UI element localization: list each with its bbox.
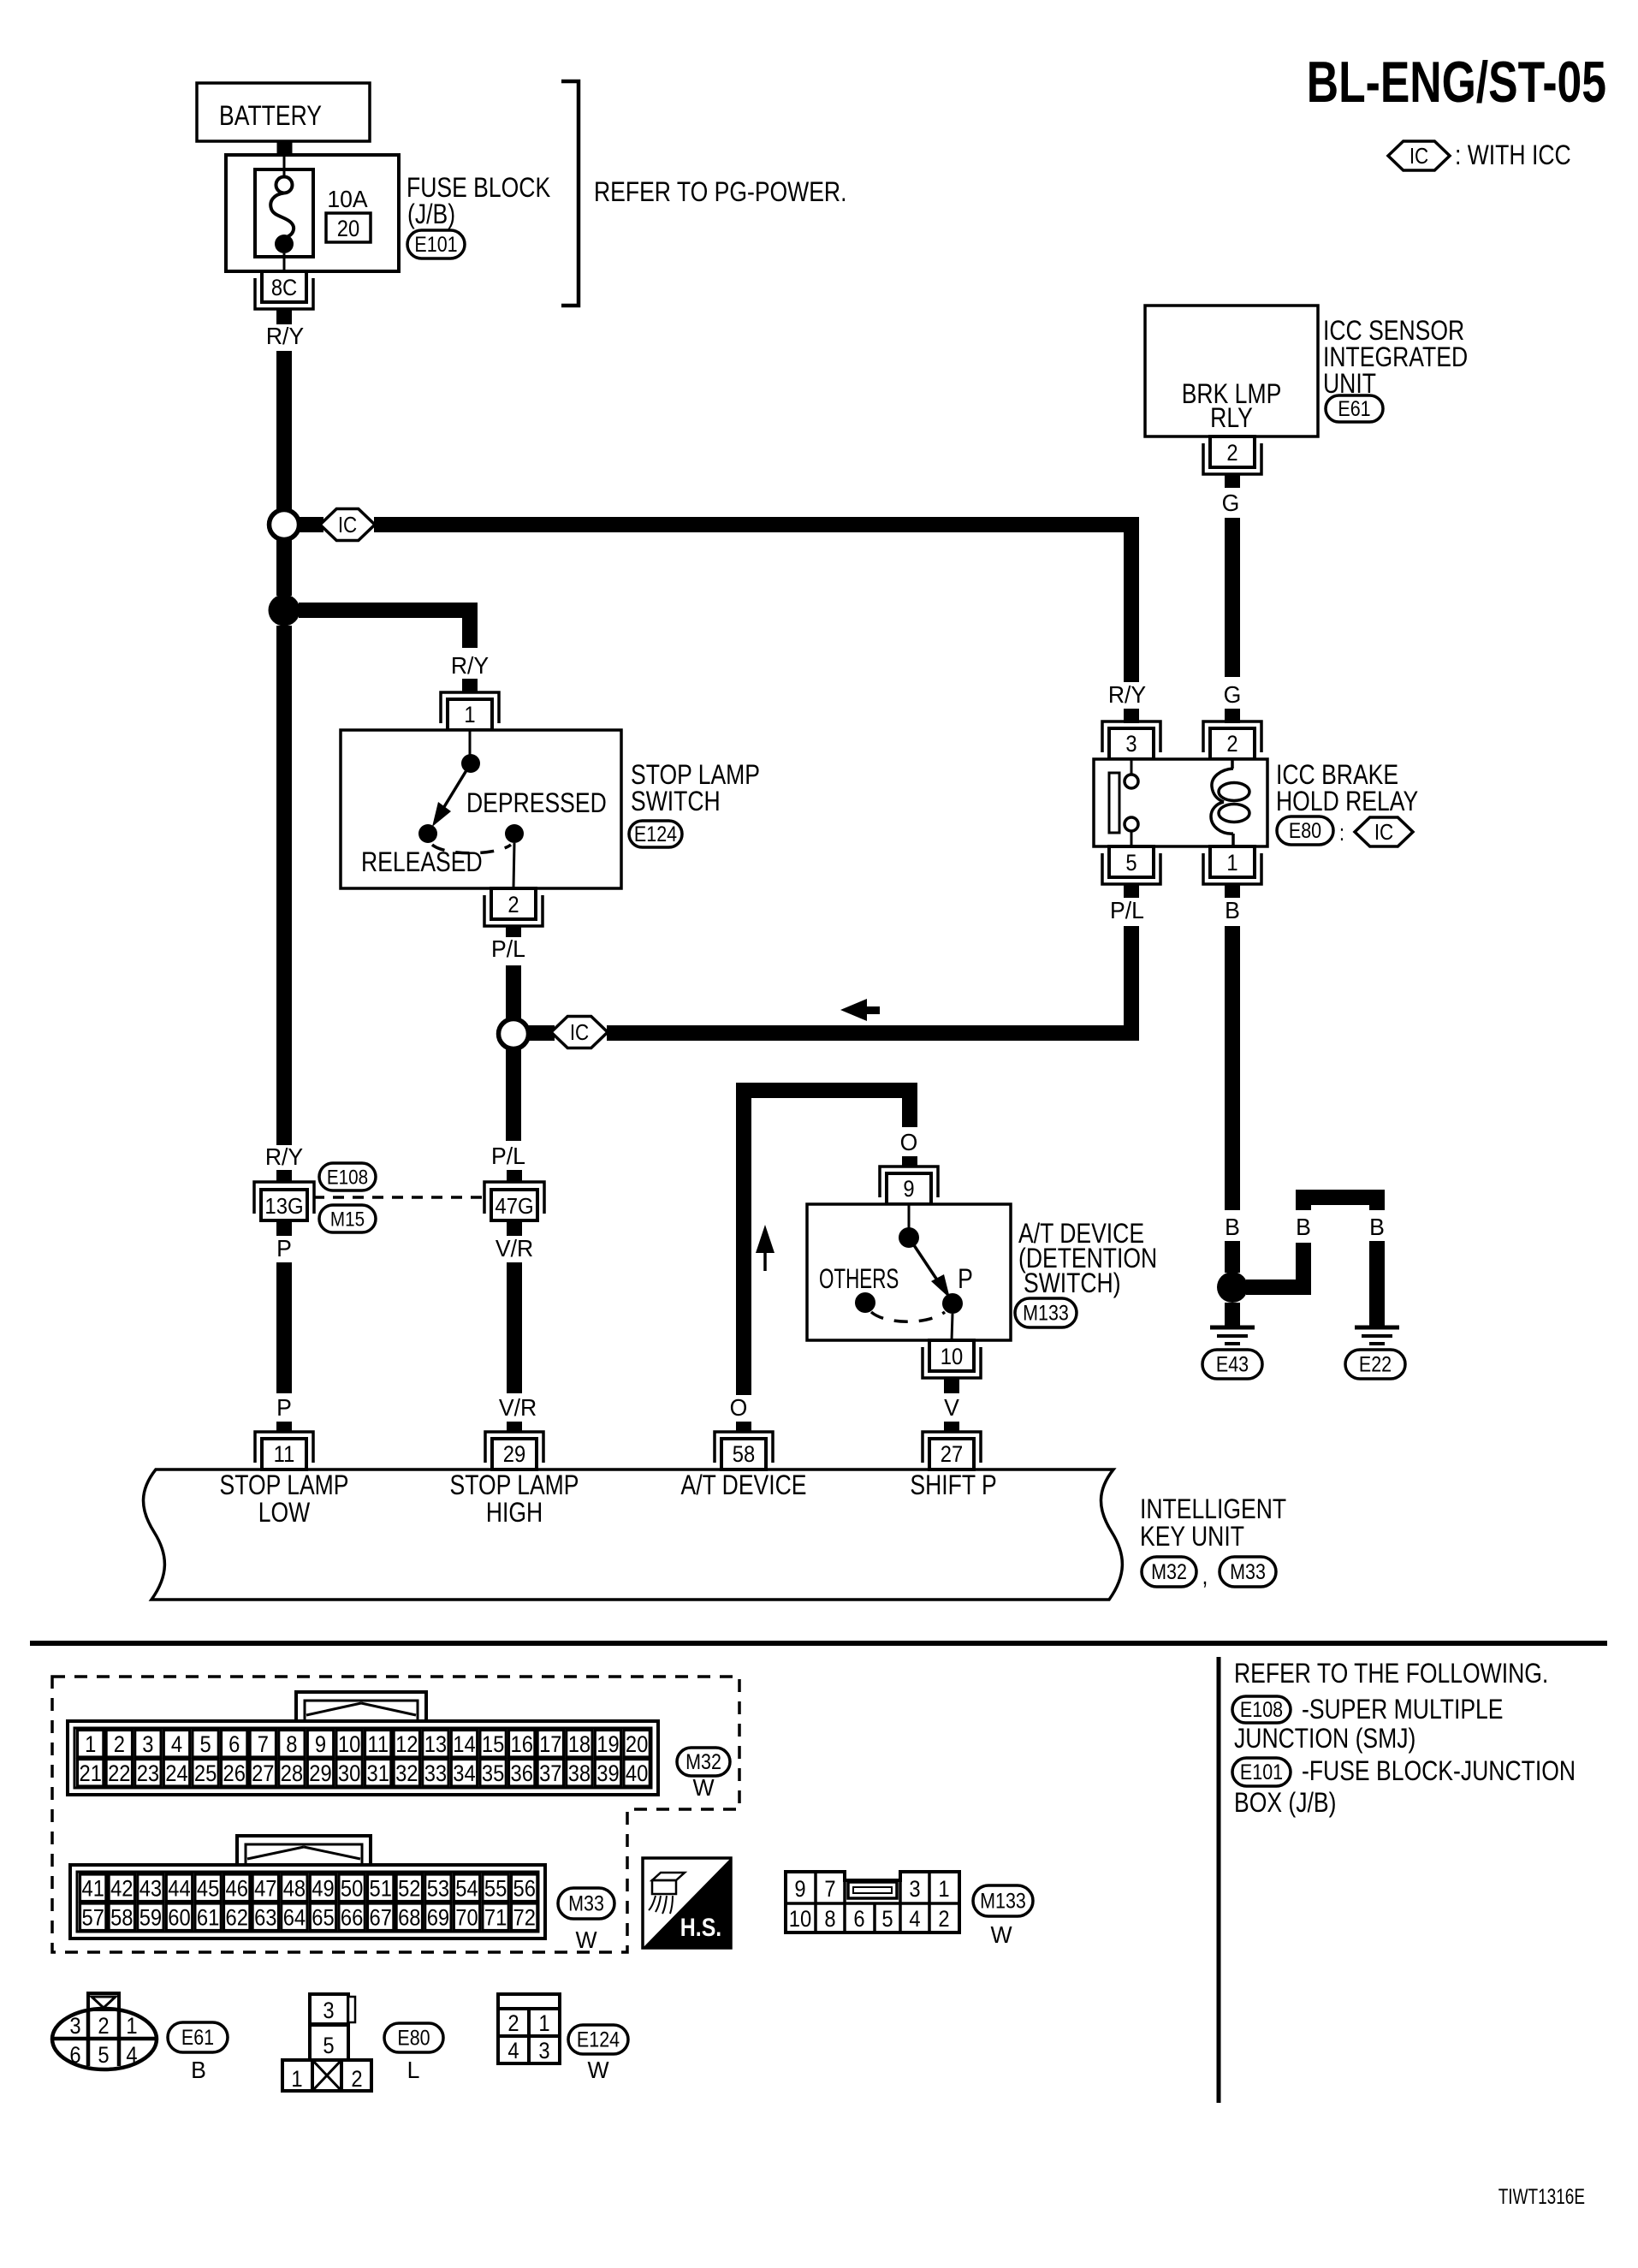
label ICC SENSOR INTEGRATED UNIT — [1323, 316, 1468, 400]
wire stub below — [1225, 474, 1240, 488]
svg-text:BATTERY: BATTERY — [219, 101, 322, 132]
connector E80 oval and IC hexagon — [1277, 816, 1413, 846]
label INTELLIGENT KEY UNIT — [1140, 1494, 1286, 1553]
svg-text:47: 47 — [254, 1876, 276, 1902]
wire R/Y main vertical — [276, 351, 292, 510]
svg-text:W: W — [587, 2056, 608, 2083]
svg-text:P/L: P/L — [1110, 896, 1144, 923]
A/T device box — [807, 1204, 1011, 1340]
svg-text:B: B — [1296, 1213, 1311, 1240]
svg-text:HOLD RELAY: HOLD RELAY — [1276, 787, 1418, 817]
H.S. view symbol — [643, 1858, 731, 1948]
label P/L — [491, 935, 525, 962]
connector pin 11 — [255, 1432, 313, 1469]
svg-text:49: 49 — [312, 1876, 334, 1902]
svg-text:STOP LAMP: STOP LAMP — [450, 1470, 579, 1501]
svg-text:IC: IC — [1410, 144, 1428, 169]
wire stub above pin 1 — [462, 679, 478, 693]
wire G down — [1225, 518, 1240, 677]
wire battery to fuse block — [277, 141, 293, 156]
note FUSE BLOCK JUNCTION BOX — [1234, 1756, 1576, 1819]
svg-text:E22: E22 — [1359, 1352, 1392, 1376]
legend IC hexagon : WITH ICC — [1388, 140, 1571, 171]
svg-text:E108: E108 — [1240, 1697, 1283, 1721]
svg-text:10: 10 — [789, 1907, 811, 1933]
connector M33 oval label — [558, 1888, 614, 1953]
connector M133 oval label — [973, 1885, 1033, 1948]
wire stub below 47G — [507, 1220, 522, 1236]
connector pin 1 stop lamp switch — [441, 692, 499, 730]
svg-text:16: 16 — [510, 1732, 532, 1758]
svg-text:V/R: V/R — [496, 1234, 533, 1262]
svg-text:G: G — [1224, 680, 1242, 708]
svg-text:SHIFT P: SHIFT P — [910, 1470, 996, 1501]
svg-text:61: 61 — [197, 1905, 219, 1931]
B loop to second ground — [1246, 1243, 1311, 1295]
svg-text:54: 54 — [455, 1876, 478, 1902]
svg-text:L: L — [407, 2056, 420, 2083]
svg-text:19: 19 — [596, 1732, 619, 1758]
svg-text:53: 53 — [427, 1876, 449, 1902]
connector 8C — [255, 271, 313, 309]
wire below P/L node — [506, 1048, 521, 1141]
svg-text:59: 59 — [139, 1905, 162, 1931]
label B above junction — [1225, 1213, 1240, 1240]
svg-text:BOX (J/B): BOX (J/B) — [1234, 1788, 1336, 1819]
svg-text:KEY UNIT: KEY UNIT — [1140, 1522, 1244, 1553]
connector M133 oval — [1015, 1298, 1077, 1327]
label SHIFT P — [910, 1470, 996, 1501]
connector E124 oval — [629, 821, 682, 847]
label O left branch — [730, 1393, 748, 1421]
svg-text:M32: M32 — [685, 1749, 721, 1773]
svg-text:72: 72 — [513, 1905, 535, 1931]
junction dot B — [1217, 1272, 1248, 1303]
svg-text:28: 28 — [281, 1761, 303, 1787]
ICC brake hold relay box — [1094, 759, 1267, 846]
svg-text:1: 1 — [538, 2011, 549, 2037]
wire stub above pin 27 — [944, 1422, 959, 1433]
connector pin 29 — [485, 1432, 543, 1469]
svg-text:23: 23 — [137, 1761, 159, 1787]
wire P to key unit — [276, 1262, 292, 1393]
connector E124 oval label — [568, 2025, 628, 2083]
svg-text:IC: IC — [1374, 820, 1393, 845]
wire stub above 13G — [276, 1170, 292, 1182]
svg-text:64: 64 — [283, 1905, 306, 1931]
svg-text:2: 2 — [938, 1907, 949, 1933]
svg-text:E101: E101 — [414, 232, 457, 256]
svg-text:5: 5 — [199, 1732, 211, 1758]
svg-text:13G: 13G — [264, 1194, 303, 1219]
svg-text:2: 2 — [507, 2011, 519, 2037]
ground symbol E43 — [1210, 1327, 1255, 1344]
svg-text:6: 6 — [69, 2043, 80, 2069]
svg-text:40: 40 — [626, 1761, 648, 1787]
wire stub to ground E43 — [1225, 1303, 1240, 1326]
svg-text:15: 15 — [482, 1732, 504, 1758]
svg-text:62: 62 — [225, 1905, 247, 1931]
svg-text:52: 52 — [398, 1876, 420, 1902]
svg-text:3: 3 — [538, 2039, 549, 2064]
svg-text:65: 65 — [312, 1905, 334, 1931]
svg-text:10: 10 — [941, 1345, 963, 1370]
svg-text:E101: E101 — [1240, 1760, 1283, 1784]
label O right branch — [900, 1128, 918, 1155]
svg-text:P/L: P/L — [491, 1142, 525, 1169]
svg-text:68: 68 — [398, 1905, 420, 1931]
svg-text::: : — [1339, 821, 1344, 846]
svg-text:57: 57 — [81, 1905, 104, 1931]
svg-text:5: 5 — [881, 1907, 893, 1933]
ground E22 oval — [1345, 1350, 1405, 1379]
wire stub below 13G — [276, 1220, 292, 1236]
svg-text:58: 58 — [110, 1905, 133, 1931]
label P/L above 47G — [491, 1142, 525, 1169]
svg-text:H.S.: H.S. — [680, 1913, 721, 1942]
svg-text:67: 67 — [369, 1905, 391, 1931]
svg-text:INTELLIGENT: INTELLIGENT — [1140, 1494, 1286, 1525]
svg-text:1: 1 — [85, 1732, 96, 1758]
svg-text:1: 1 — [126, 2014, 137, 2039]
node open circle IC branch — [270, 510, 300, 540]
svg-text:2: 2 — [98, 2014, 109, 2039]
label B loop right — [1369, 1213, 1385, 1240]
svg-text:31: 31 — [366, 1761, 389, 1787]
A/T detention switch contacts — [855, 1204, 963, 1340]
svg-text:E61: E61 — [181, 2025, 214, 2049]
connector pin 2 relay — [1203, 721, 1261, 759]
svg-text:9: 9 — [315, 1732, 326, 1758]
svg-text:1: 1 — [1226, 851, 1237, 876]
connector M33 pinout — [70, 1836, 545, 1938]
svg-text:10A: 10A — [327, 185, 368, 212]
svg-text:B: B — [1225, 1213, 1240, 1240]
svg-text:M33: M33 — [568, 1891, 604, 1915]
svg-text:2: 2 — [1226, 732, 1237, 757]
svg-text:1: 1 — [938, 1877, 949, 1903]
svg-text:8: 8 — [824, 1907, 835, 1933]
svg-text:42: 42 — [110, 1876, 133, 1902]
label STOP LAMP HIGH — [450, 1470, 579, 1529]
wire main down from dot — [276, 626, 292, 1145]
svg-text:(J/B): (J/B) — [407, 199, 455, 230]
label V — [944, 1393, 960, 1421]
connector E101 oval note — [1232, 1758, 1291, 1786]
label B below pin 1 — [1225, 896, 1240, 923]
label DEPRESSED — [466, 788, 607, 819]
arrow left on P/L wire — [840, 999, 880, 1021]
label G — [1222, 489, 1240, 516]
svg-text:2: 2 — [351, 2067, 362, 2093]
svg-text:25: 25 — [194, 1761, 217, 1787]
svg-text:60: 60 — [168, 1905, 190, 1931]
svg-text:7: 7 — [824, 1877, 835, 1903]
connector E108 oval — [319, 1163, 376, 1190]
label R/Y — [266, 322, 304, 349]
label P below 13G — [276, 1234, 292, 1262]
svg-text:8: 8 — [286, 1732, 297, 1758]
wire stub below pin 1 — [1225, 884, 1240, 898]
svg-text:SWITCH: SWITCH — [631, 787, 721, 817]
connector pin 27 — [923, 1432, 981, 1469]
connector E61 oval — [1326, 395, 1383, 422]
connector M133 pinout — [786, 1872, 959, 1933]
svg-text:E124: E124 — [634, 822, 677, 846]
wire stub above pin 58 — [736, 1422, 751, 1433]
svg-text:OTHERS: OTHERS — [819, 1263, 899, 1294]
svg-text:7: 7 — [258, 1732, 269, 1758]
svg-text:66: 66 — [341, 1905, 363, 1931]
drawing code TIWT1316E — [1499, 2184, 1585, 2208]
label R/Y branch — [451, 651, 489, 679]
fuse block box E101 — [226, 155, 399, 271]
relay armature bar — [1109, 773, 1119, 833]
svg-text:V: V — [944, 1393, 960, 1421]
dashed SMJ link line — [313, 1196, 484, 1199]
svg-text:E80: E80 — [397, 2026, 430, 2050]
svg-text:6: 6 — [853, 1907, 864, 1933]
svg-text:E80: E80 — [1289, 818, 1321, 842]
svg-text:DEPRESSED: DEPRESSED — [466, 788, 607, 819]
svg-text:W: W — [990, 1921, 1012, 1948]
svg-text:RELEASED: RELEASED — [361, 847, 483, 878]
label V/R above pin 29 — [499, 1393, 537, 1421]
wire stub above pin 11 — [276, 1422, 292, 1433]
svg-text:35: 35 — [482, 1761, 504, 1787]
wire stub above pin 29 — [507, 1422, 522, 1433]
connector pin 5 relay — [1102, 846, 1160, 884]
svg-text:32: 32 — [395, 1761, 418, 1787]
connector M32 pinout — [68, 1692, 658, 1795]
wire node to hexagon — [528, 1025, 555, 1041]
label B loop left — [1296, 1213, 1311, 1240]
connector E80 oval label — [384, 2023, 443, 2083]
svg-text:69: 69 — [427, 1905, 449, 1931]
svg-text:22: 22 — [108, 1761, 130, 1787]
bracket refer to pg-power — [561, 81, 846, 306]
connector E80 pinout — [282, 1994, 371, 2092]
svg-text:43: 43 — [139, 1876, 162, 1902]
connector M33 oval — [1220, 1557, 1276, 1587]
wire stub above pin 9 — [902, 1156, 917, 1167]
svg-text:10: 10 — [338, 1732, 360, 1758]
wire to ground E22 — [1369, 1241, 1385, 1326]
switch contacts and arm — [418, 730, 524, 888]
wire A/T branch top bar — [736, 1083, 917, 1395]
svg-text:-SUPER MULTIPLE: -SUPER MULTIPLE — [1302, 1695, 1504, 1725]
label FUSE BLOCK (J/B) — [407, 173, 551, 230]
connector E101 oval — [407, 230, 465, 258]
wire branch to stop lamp switch — [299, 603, 478, 648]
svg-text:56: 56 — [513, 1876, 535, 1902]
up arrow beside A/T wire — [756, 1225, 774, 1271]
svg-text:20: 20 — [626, 1732, 648, 1758]
svg-text:9: 9 — [794, 1877, 805, 1903]
wire IC horizontal to relay — [374, 517, 1139, 532]
label OTHERS — [819, 1263, 899, 1294]
svg-text:51: 51 — [369, 1876, 391, 1902]
label V/R below 47G — [496, 1234, 533, 1262]
label R/Y relay feed — [1108, 680, 1146, 708]
svg-text:-FUSE BLOCK-JUNCTION: -FUSE BLOCK-JUNCTION — [1302, 1756, 1576, 1787]
connector E108 oval note — [1232, 1696, 1291, 1723]
svg-text:2: 2 — [1226, 441, 1237, 466]
svg-text:1: 1 — [291, 2067, 302, 2093]
svg-text:2: 2 — [114, 1732, 125, 1758]
svg-text:26: 26 — [223, 1761, 245, 1787]
svg-text:70: 70 — [455, 1905, 478, 1931]
svg-text:SWITCH): SWITCH) — [1024, 1268, 1121, 1299]
svg-text:M32: M32 — [1151, 1559, 1187, 1583]
connector M32 oval — [1142, 1557, 1196, 1587]
label STOP LAMP SWITCH — [631, 760, 760, 817]
svg-text:W: W — [575, 1926, 596, 1953]
connector M32 oval label — [677, 1748, 730, 1801]
svg-text:4: 4 — [909, 1907, 920, 1933]
svg-text:34: 34 — [453, 1761, 475, 1787]
svg-text:E124: E124 — [577, 2028, 620, 2051]
stop lamp switch box — [341, 730, 621, 888]
svg-text:4: 4 — [171, 1732, 182, 1758]
fuse 10A 20 — [270, 156, 371, 274]
connector pin 1 relay — [1203, 846, 1261, 884]
connector pin 3 relay — [1102, 721, 1160, 759]
svg-text:9: 9 — [903, 1177, 914, 1202]
wire stub below pin 10 — [944, 1378, 959, 1393]
svg-text:33: 33 — [424, 1761, 447, 1787]
svg-text:O: O — [900, 1128, 918, 1155]
ground E43 oval — [1202, 1350, 1262, 1379]
svg-text:O: O — [730, 1393, 748, 1421]
svg-text:47G: 47G — [495, 1194, 533, 1219]
svg-text:M15: M15 — [330, 1208, 365, 1231]
svg-text:B: B — [1225, 896, 1240, 923]
svg-text:R/Y: R/Y — [1108, 680, 1146, 708]
wire down to relay pin 3 — [1124, 517, 1139, 682]
svg-text:V/R: V/R — [499, 1393, 537, 1421]
relay contacts — [1125, 759, 1138, 846]
svg-text:REFER TO PG-POWER.: REFER TO PG-POWER. — [594, 177, 846, 208]
svg-text:4: 4 — [507, 2039, 519, 2064]
svg-text:B: B — [1369, 1213, 1385, 1240]
connector pin 2 stop lamp switch — [484, 888, 543, 926]
relay coil — [1211, 759, 1249, 846]
label ICC BRAKE HOLD RELAY — [1276, 760, 1418, 817]
svg-text:41: 41 — [81, 1876, 104, 1902]
junction dot branch to stop lamp switch — [269, 595, 300, 626]
svg-text:M133: M133 — [980, 1889, 1026, 1913]
label A/T DEVICE pin — [680, 1470, 806, 1501]
wire stub below 8C — [276, 309, 292, 324]
svg-text:: WITH ICC: : WITH ICC — [1455, 140, 1571, 171]
svg-text:46: 46 — [225, 1876, 247, 1902]
ground symbol E22 — [1355, 1327, 1399, 1344]
label P above pin 11 — [276, 1393, 292, 1421]
vertical divider line — [1217, 1657, 1221, 2103]
intelligent key unit strip — [143, 1469, 1122, 1600]
svg-text:13: 13 — [424, 1732, 447, 1758]
svg-text:30: 30 — [338, 1761, 360, 1787]
svg-text:11: 11 — [367, 1732, 389, 1758]
svg-text:RLY: RLY — [1210, 403, 1253, 434]
wire stub to junction — [1225, 1241, 1240, 1273]
svg-text:3: 3 — [69, 2014, 80, 2039]
svg-text:18: 18 — [568, 1732, 591, 1758]
svg-text:63: 63 — [254, 1905, 276, 1931]
label P contact — [958, 1264, 973, 1295]
svg-text:14: 14 — [453, 1732, 475, 1758]
svg-text:27: 27 — [941, 1442, 963, 1468]
connector E61 oval label — [168, 2022, 228, 2083]
svg-text:17: 17 — [539, 1732, 561, 1758]
svg-text:A/T DEVICE: A/T DEVICE — [680, 1470, 806, 1501]
svg-text:E61: E61 — [1338, 396, 1370, 420]
svg-text:55: 55 — [484, 1876, 507, 1902]
label A/T DEVICE (DETENTION SWITCH) — [1018, 1219, 1157, 1299]
svg-text:8C: 8C — [271, 276, 297, 301]
svg-text:IC: IC — [338, 513, 357, 537]
svg-text:IC: IC — [570, 1020, 589, 1045]
note REFER TO THE FOLLOWING — [1234, 1659, 1548, 1689]
svg-text:71: 71 — [484, 1905, 507, 1931]
connector E61 pinout — [52, 1993, 157, 2069]
svg-text:58: 58 — [733, 1442, 755, 1468]
wire stub below relay pin 5 — [1124, 884, 1139, 898]
BRK LMP RLY box (ICC sensor integrated unit) — [1145, 306, 1318, 436]
svg-text:G: G — [1222, 489, 1240, 516]
connector 2 below BRK LMP RLY — [1203, 436, 1261, 474]
svg-text:4: 4 — [126, 2043, 137, 2069]
svg-text:HIGH: HIGH — [486, 1498, 543, 1529]
svg-text:2: 2 — [507, 893, 519, 918]
wire segment node to hexagon — [299, 517, 323, 532]
svg-text:3: 3 — [142, 1732, 153, 1758]
svg-text:5: 5 — [323, 2033, 334, 2059]
svg-text:27: 27 — [252, 1761, 274, 1787]
svg-text:45: 45 — [197, 1876, 219, 1902]
svg-text:E43: E43 — [1216, 1352, 1249, 1376]
svg-text:LOW: LOW — [258, 1498, 311, 1529]
svg-text:REFER TO THE FOLLOWING.: REFER TO THE FOLLOWING. — [1234, 1659, 1548, 1689]
svg-text:BL-ENG/ST-05: BL-ENG/ST-05 — [1307, 49, 1606, 115]
svg-text:11: 11 — [274, 1442, 295, 1468]
svg-text:R/Y: R/Y — [451, 651, 489, 679]
svg-text:3: 3 — [323, 1998, 334, 2024]
label P/L relay side — [1110, 896, 1144, 923]
svg-text:W: W — [692, 1773, 714, 1801]
svg-text:M133: M133 — [1023, 1301, 1069, 1325]
wire stub above relay pin 2 — [1225, 709, 1240, 723]
svg-text:1: 1 — [464, 703, 475, 728]
svg-text:5: 5 — [1125, 851, 1137, 876]
svg-text:E108: E108 — [327, 1166, 368, 1189]
svg-text:3: 3 — [1125, 732, 1137, 757]
svg-text:JUNCTION (SMJ): JUNCTION (SMJ) — [1234, 1724, 1415, 1754]
svg-text:3: 3 — [909, 1877, 920, 1903]
node open circle P/L — [499, 1019, 529, 1049]
svg-text:29: 29 — [503, 1442, 525, 1468]
wire B down — [1225, 926, 1240, 1210]
label R/Y above 13G — [265, 1143, 303, 1170]
connector pin 58 — [715, 1432, 773, 1469]
note SUPER MULTIPLE JUNCTION — [1234, 1695, 1504, 1754]
wire V/R to key unit — [507, 1262, 522, 1393]
battery — [197, 83, 370, 141]
label RELEASED — [361, 847, 483, 878]
wire stub below pin2 — [506, 926, 521, 937]
dashed harness boundary — [52, 1677, 739, 1952]
